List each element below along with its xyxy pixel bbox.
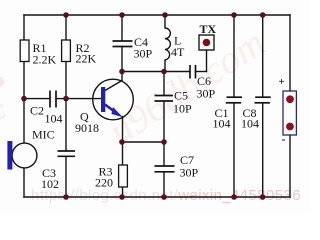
svg-text:2.2K: 2.2K bbox=[33, 53, 57, 67]
svg-text:4T: 4T bbox=[171, 45, 185, 59]
svg-text:104: 104 bbox=[213, 117, 231, 131]
svg-text:10P: 10P bbox=[173, 102, 192, 116]
svg-text:C2: C2 bbox=[30, 104, 44, 118]
svg-text:MIC: MIC bbox=[32, 128, 55, 142]
svg-text:9018: 9018 bbox=[75, 121, 99, 135]
svg-text:TX: TX bbox=[200, 22, 217, 36]
svg-text:220: 220 bbox=[95, 176, 113, 190]
svg-text:104: 104 bbox=[241, 117, 259, 131]
svg-text:u96db.com: u96db.com bbox=[100, 20, 273, 154]
svg-text:104: 104 bbox=[45, 112, 63, 126]
svg-text:22K: 22K bbox=[76, 52, 97, 66]
svg-text:30P: 30P bbox=[180, 166, 199, 180]
svg-text:C: C bbox=[0, 100, 9, 125]
svg-text:-: - bbox=[282, 132, 286, 146]
svg-text:30P: 30P bbox=[197, 87, 216, 101]
svg-text:+: + bbox=[279, 76, 285, 88]
svg-text:30P: 30P bbox=[134, 47, 153, 61]
svg-text:C5: C5 bbox=[174, 89, 188, 103]
svg-text:102: 102 bbox=[41, 177, 59, 191]
